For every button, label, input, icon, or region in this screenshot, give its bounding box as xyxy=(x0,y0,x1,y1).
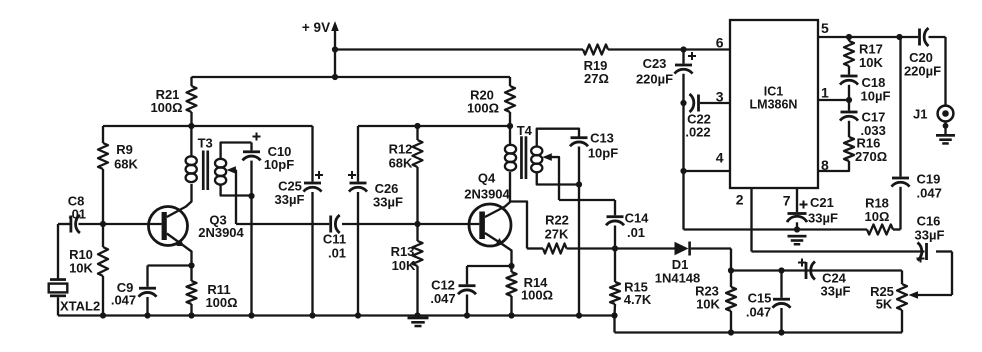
pin 2 lead xyxy=(736,188,752,252)
svg-text:68K: 68K xyxy=(114,157,138,172)
svg-text:10K: 10K xyxy=(859,55,883,70)
junction pin5/C19 xyxy=(896,34,902,40)
svg-text:10K: 10K xyxy=(392,258,416,273)
resistor R19 xyxy=(583,45,609,87)
capacitor C15 xyxy=(746,271,791,333)
T4 secondary winding xyxy=(531,129,579,185)
junction R12/R13/base xyxy=(414,221,420,227)
capacitor C9 xyxy=(111,280,157,316)
svg-text:5K: 5K xyxy=(876,297,893,312)
svg-text:C14: C14 xyxy=(625,211,650,226)
svg-text:27Ω: 27Ω xyxy=(584,71,609,86)
svg-text:100Ω: 100Ω xyxy=(205,295,237,310)
junction R13/ground rail xyxy=(414,312,420,318)
svg-text:10Ω: 10Ω xyxy=(865,209,890,224)
junction R11/ground rail xyxy=(188,312,194,318)
svg-text:4: 4 xyxy=(716,150,724,166)
resistor R21 xyxy=(150,77,196,126)
pin 3 label xyxy=(716,89,724,105)
svg-text:100Ω: 100Ω xyxy=(150,100,182,115)
capacitor C18 xyxy=(840,75,890,104)
junction C8/R10/base xyxy=(100,221,106,227)
capacitor C19 xyxy=(892,37,942,230)
svg-text:C16: C16 xyxy=(917,214,941,229)
T4 primary winding xyxy=(505,126,516,171)
junction C10/T3 bottom xyxy=(248,193,254,199)
capacitor C23 xyxy=(636,50,696,230)
junction C26/ground rail xyxy=(355,312,361,318)
wire supply rail top (+9V to pin6) xyxy=(335,48,730,50)
capacitor C13 xyxy=(570,131,618,316)
svg-text:2: 2 xyxy=(736,192,744,208)
svg-text:10K: 10K xyxy=(69,261,93,276)
capacitor C10 xyxy=(243,133,295,197)
junction R23/ground rail xyxy=(728,329,734,335)
svg-text:3: 3 xyxy=(716,89,724,105)
svg-text:1: 1 xyxy=(821,85,829,101)
T4 tap arrow xyxy=(542,153,559,200)
svg-text:C11: C11 xyxy=(323,232,346,247)
transformer T4 core xyxy=(517,123,533,179)
svg-text:.01: .01 xyxy=(328,246,346,261)
wire tap to C14 xyxy=(559,199,615,201)
capacitor C24 xyxy=(798,259,850,299)
svg-text:+ 9V: + 9V xyxy=(302,20,330,35)
resistor R9 xyxy=(98,142,139,172)
ground symbol C21 xyxy=(788,235,807,246)
junction rail/x103 xyxy=(100,312,106,318)
resistor R15 xyxy=(610,249,652,316)
wire supply rail 2 xyxy=(192,76,511,78)
svg-text:.022: .022 xyxy=(685,125,710,140)
capacitor C17 xyxy=(840,100,886,138)
svg-text:33µF: 33µF xyxy=(373,195,403,210)
pin 8 label xyxy=(821,157,829,173)
junction Q4 emitter node xyxy=(508,263,514,269)
capacitor C14 xyxy=(606,200,649,249)
junction C22 node xyxy=(680,100,686,106)
capacitor C25 xyxy=(275,126,323,316)
junction x578/ground rail xyxy=(576,312,582,318)
capacitor C21 xyxy=(787,195,838,230)
svg-text:100Ω: 100Ω xyxy=(521,288,553,303)
svg-text:4.7K: 4.7K xyxy=(624,292,652,307)
resistor R14 xyxy=(507,266,554,316)
capacitor C11 xyxy=(323,215,346,261)
junction C15/ground rail xyxy=(778,329,784,335)
op-amp IC1 LM386N xyxy=(730,20,818,188)
svg-text:T4: T4 xyxy=(517,123,533,138)
svg-text:33µF: 33µF xyxy=(915,228,945,243)
wire ground rail right xyxy=(615,331,903,333)
wire tank to ground xyxy=(250,196,252,316)
connector J1 xyxy=(913,37,953,134)
svg-text:XTAL2: XTAL2 xyxy=(60,299,100,314)
junction +9V/top rail xyxy=(332,46,338,52)
svg-text:.01: .01 xyxy=(627,225,645,240)
svg-text:10pF: 10pF xyxy=(588,146,618,161)
svg-text:33µF: 33µF xyxy=(808,211,838,226)
resistor R10 xyxy=(69,247,108,276)
svg-text:1N4148: 1N4148 xyxy=(655,271,701,286)
wire signal line y=224 xyxy=(236,223,418,225)
pin 1 line xyxy=(818,85,849,101)
resistor R23 xyxy=(695,271,736,333)
svg-text:C19: C19 xyxy=(917,172,941,187)
capacitor C12 xyxy=(430,278,476,316)
svg-text:33µF: 33µF xyxy=(275,192,305,207)
junction C9/ground rail xyxy=(144,312,150,318)
svg-text:Q4: Q4 xyxy=(478,171,496,186)
junction C13/T4 bottom xyxy=(576,181,582,187)
svg-text:R12: R12 xyxy=(389,142,413,157)
potentiometer R25 xyxy=(870,271,952,333)
capacitor C26 xyxy=(348,126,403,316)
pin 7 lead xyxy=(783,188,797,212)
diode D1 xyxy=(615,242,731,286)
junction R20/T4/railB xyxy=(507,123,513,129)
svg-text:C13: C13 xyxy=(590,131,614,146)
svg-text:10µF: 10µF xyxy=(861,89,891,104)
svg-text:R22: R22 xyxy=(545,213,569,228)
junction C12/ground rail xyxy=(464,312,470,318)
svg-text:6: 6 xyxy=(716,35,724,51)
node +9V supply xyxy=(302,20,339,77)
capacitor C20 xyxy=(904,28,946,79)
transistor Q3 xyxy=(103,184,245,266)
svg-text:270Ω: 270Ω xyxy=(855,149,887,164)
resistor R12 xyxy=(389,126,423,224)
junction pin4 node xyxy=(680,168,686,174)
svg-text:LM386N: LM386N xyxy=(750,98,798,112)
junction R15/ground rail xyxy=(611,312,617,318)
junction R14/ground rail xyxy=(508,312,514,318)
transistor Q4 xyxy=(418,171,512,267)
svg-text:IC1: IC1 xyxy=(764,85,784,99)
wire wiper to C16 xyxy=(951,252,953,296)
wire R22 tapoff xyxy=(510,202,527,249)
wire rail A y=126 xyxy=(103,125,313,127)
junction D1/R23/C15 node xyxy=(728,267,734,273)
resistor R17 xyxy=(844,37,883,75)
junction C14/R22/R15/D1 xyxy=(612,245,618,251)
svg-text:.01: .01 xyxy=(68,207,86,222)
T3 primary winding xyxy=(186,126,197,182)
svg-text:.047: .047 xyxy=(917,186,942,201)
wire rail B y=126 xyxy=(358,125,510,127)
svg-text:J1: J1 xyxy=(913,107,927,122)
junction +9V/rail2 xyxy=(332,74,338,80)
svg-text:C15: C15 xyxy=(748,291,772,306)
wire D1 cathode drop xyxy=(730,249,732,271)
resistor R20 xyxy=(467,77,515,126)
svg-text:33µF: 33µF xyxy=(821,284,851,299)
transformer T3 core xyxy=(198,136,213,191)
svg-text:2N3904: 2N3904 xyxy=(198,225,244,240)
svg-text:C21: C21 xyxy=(810,195,834,210)
svg-text:.047: .047 xyxy=(430,291,455,306)
junction x251/ground rail xyxy=(248,312,254,318)
svg-text:10pF: 10pF xyxy=(264,157,294,172)
junction C21/ground bus xyxy=(794,226,800,232)
pin 4 label xyxy=(716,150,724,166)
junction R12/railB xyxy=(414,123,420,129)
wire XTAL left drop xyxy=(57,224,59,279)
junction pin1 node xyxy=(846,97,852,103)
resistor R11 xyxy=(187,266,238,316)
svg-text:8: 8 xyxy=(821,157,829,173)
svg-text:10K: 10K xyxy=(696,297,720,312)
resistor R18 xyxy=(865,196,901,235)
svg-text:R9: R9 xyxy=(116,142,133,157)
svg-text:100Ω: 100Ω xyxy=(467,101,499,116)
junction pin5/R17 xyxy=(846,34,852,40)
svg-text:.047: .047 xyxy=(746,305,771,320)
svg-text:68K: 68K xyxy=(389,156,413,171)
pin 5 line xyxy=(818,20,918,37)
junction R19/C23/pin6 xyxy=(680,46,686,52)
wire C15/C24 node xyxy=(731,269,902,271)
wire rail step down xyxy=(613,316,615,333)
junction C15 top xyxy=(778,267,784,273)
T3 secondary winding xyxy=(215,143,252,196)
svg-text:220µF: 220µF xyxy=(636,72,673,87)
wire ground rail left xyxy=(58,314,615,316)
svg-text:7: 7 xyxy=(783,193,791,209)
crystal XTAL2 xyxy=(49,278,101,315)
svg-text:C23: C23 xyxy=(643,56,667,71)
svg-text:T3: T3 xyxy=(198,136,213,151)
svg-text:R13: R13 xyxy=(391,244,415,259)
ground symbol mid xyxy=(408,317,429,328)
ground symbol J1 xyxy=(936,134,955,145)
junction C25/ground rail xyxy=(309,312,315,318)
svg-text:220µF: 220µF xyxy=(904,64,941,79)
capacitor C16 xyxy=(752,214,953,263)
wire ground bus y229 xyxy=(684,228,868,230)
svg-text:5: 5 xyxy=(821,20,829,36)
wire pin4 stub xyxy=(684,170,731,172)
svg-text:2N3904: 2N3904 xyxy=(464,187,510,202)
capacitor C22 xyxy=(685,94,730,140)
wire C9 branch xyxy=(148,266,192,287)
svg-text:27K: 27K xyxy=(545,227,569,242)
T3 tap arrow xyxy=(226,166,236,224)
junction R21/T3/railA xyxy=(188,123,194,129)
resistor R13 xyxy=(391,224,423,316)
resistor R22 xyxy=(527,213,615,254)
resistor R16 xyxy=(818,136,887,172)
capacitor C8 xyxy=(58,194,103,234)
wire left column x=103 xyxy=(102,126,104,316)
junction Q3 emitter node xyxy=(188,262,194,268)
pin 6 label xyxy=(716,35,724,51)
wire C12 branch xyxy=(467,266,512,284)
svg-text:.047: .047 xyxy=(111,293,136,308)
